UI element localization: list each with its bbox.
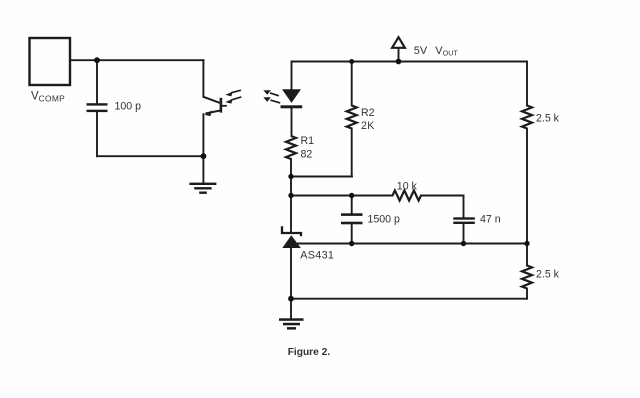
svg-text:2.5 k: 2.5 k [536, 113, 560, 125]
svg-text:82: 82 [301, 148, 313, 160]
svg-text:2.5 k: 2.5 k [536, 268, 560, 280]
svg-text:1500 p: 1500 p [368, 214, 401, 226]
svg-text:AS431: AS431 [300, 249, 334, 261]
svg-text:R2: R2 [361, 107, 375, 119]
svg-text:Figure 2.: Figure 2. [288, 347, 331, 358]
svg-text:5V: 5V [414, 45, 428, 57]
svg-text:47 n: 47 n [480, 214, 501, 226]
svg-text:100 p: 100 p [115, 100, 142, 112]
svg-text:10 k: 10 k [397, 180, 418, 192]
svg-text:2K: 2K [361, 120, 375, 132]
svg-text:VCOMP: VCOMP [31, 91, 65, 104]
svg-text:R1: R1 [301, 135, 315, 147]
svg-text:VOUT: VOUT [435, 45, 458, 58]
